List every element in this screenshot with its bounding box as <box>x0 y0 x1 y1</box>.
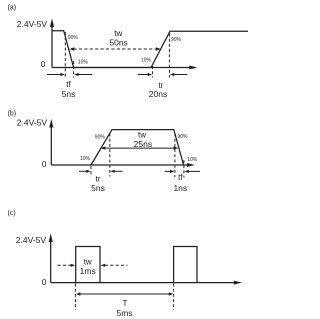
svg-text:0: 0 <box>41 59 46 69</box>
tw measure line (b) <box>101 146 179 149</box>
svg-text:2.4V-5V: 2.4V-5V <box>17 19 48 29</box>
svg-text:2.4V-5V: 2.4V-5V <box>16 235 47 245</box>
dashed vertical below pulse2 left edge (c) <box>173 284 175 311</box>
svg-text:tf: tf <box>66 80 71 89</box>
waveform (b): trapezoid pulse <box>91 130 184 165</box>
svg-text:10%: 10% <box>141 57 152 63</box>
x-axis (c) <box>51 281 242 285</box>
tr measure arrows (b) <box>79 170 123 173</box>
pulse 2 (c) <box>174 247 197 283</box>
dashed vertical at 90% of rise (b) <box>109 134 111 177</box>
dashed vertical at 10% of fall (a) <box>73 61 75 78</box>
waveform (a): high, fall, low, rise, high <box>52 31 248 68</box>
svg-text:2.4V-5V: 2.4V-5V <box>17 118 48 128</box>
svg-text:1ns: 1ns <box>173 183 187 193</box>
svg-text:1ms: 1ms <box>80 266 96 276</box>
dashed vertical at 10% of rise (a) <box>152 66 154 78</box>
x-axis (a) <box>52 66 198 70</box>
dashed vertical at 90% of fall (b) <box>174 134 176 178</box>
dashed vertical at 90% of rise (a) <box>168 34 170 78</box>
svg-text:5ns: 5ns <box>91 183 105 193</box>
y-axis (c) <box>49 234 53 283</box>
right dashed arrow to pulse1 (c) <box>101 264 128 267</box>
svg-text:5ms: 5ms <box>116 308 132 318</box>
left dashed arrow to pulse1 (c) <box>58 264 76 267</box>
svg-text:0: 0 <box>42 159 47 169</box>
tw dashed measure line (a) <box>69 47 160 50</box>
y-axis (b) <box>49 119 53 165</box>
dashed vertical at foot of rise (b) <box>90 166 92 177</box>
dashed vertical at foot of fall (b) <box>183 160 185 178</box>
tf measure arrows (a) <box>47 73 92 76</box>
dashed vertical below pulse1 left edge (c) <box>74 284 76 311</box>
svg-text:90%: 90% <box>68 35 79 41</box>
svg-text:10%: 10% <box>80 156 91 162</box>
svg-text:20ns: 20ns <box>149 89 167 99</box>
svg-text:90%: 90% <box>171 37 182 43</box>
svg-text:90%: 90% <box>95 134 106 140</box>
T measure line with arrows (c) <box>76 292 173 296</box>
svg-text:T: T <box>123 299 128 308</box>
x-axis (b) <box>51 163 195 167</box>
svg-text:(a): (a) <box>8 5 17 12</box>
svg-text:(c): (c) <box>8 210 16 217</box>
svg-text:5ns: 5ns <box>62 89 76 99</box>
svg-text:10%: 10% <box>78 60 89 66</box>
pulse 1 (c) <box>76 247 100 283</box>
svg-text:90%: 90% <box>178 134 189 140</box>
y-axis (a) <box>50 19 54 68</box>
svg-text:25ns: 25ns <box>134 139 152 149</box>
svg-text:0: 0 <box>42 277 47 287</box>
svg-text:50ns: 50ns <box>109 37 127 47</box>
svg-text:(b): (b) <box>8 111 17 118</box>
dashed vertical at 90% of fall (a) <box>64 32 66 78</box>
svg-text:10%: 10% <box>187 157 198 163</box>
svg-text:tw: tw <box>84 257 92 266</box>
tr measure arrows (a) <box>138 73 188 76</box>
svg-text:tf: tf <box>178 173 183 182</box>
tf measure arrows (b) <box>165 170 201 173</box>
